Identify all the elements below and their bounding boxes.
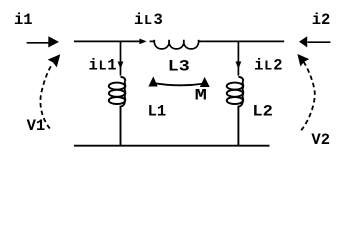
svg-text:V1: V1	[27, 117, 46, 135]
svg-text:iL1: iL1	[89, 57, 117, 75]
wire left branch upper	[120, 41, 122, 75]
svg-text:i2: i2	[312, 11, 331, 29]
wire bottom	[74, 145, 270, 147]
current arrowhead iL3	[139, 39, 146, 45]
voltage arrow V1	[40, 54, 60, 128]
svg-text:L2: L2	[252, 103, 273, 121]
inductor L3	[150, 40, 205, 49]
svg-text:i1: i1	[14, 11, 33, 29]
current arrow i2	[299, 36, 330, 47]
wire top left	[74, 40, 140, 42]
svg-text:L1: L1	[148, 103, 167, 121]
current arrowhead iL2	[236, 62, 242, 70]
svg-text:V2: V2	[311, 131, 330, 149]
svg-text:L3: L3	[168, 58, 190, 76]
wire top right	[205, 40, 285, 42]
voltage arrow V2	[297, 54, 314, 130]
inductor L2	[227, 77, 244, 146]
svg-text:iL2: iL2	[254, 57, 282, 75]
svg-text:iL3: iL3	[134, 11, 163, 29]
wire right branch upper	[237, 41, 239, 75]
current arrowhead iL1	[118, 62, 124, 70]
svg-text:M: M	[195, 87, 207, 105]
inductor L1	[109, 77, 126, 146]
mutual coupling arrow M	[148, 76, 209, 87]
current arrow i1	[27, 36, 59, 47]
